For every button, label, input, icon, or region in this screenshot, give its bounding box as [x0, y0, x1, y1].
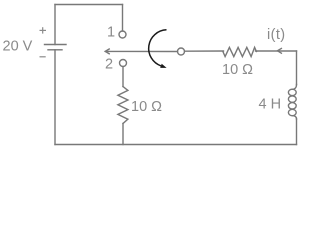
- resistor R2 10 ohm (middle branch): [118, 87, 128, 124]
- svg-text:i(t): i(t): [267, 27, 286, 43]
- resistor R1 10 ohm (top): [223, 47, 257, 56]
- switch terminal 1 contact: [119, 31, 126, 38]
- battery V1 negative plate: [48, 49, 62, 51]
- wire terminal 2 to resistor R2: [122, 67, 124, 87]
- switch pivot contact: [178, 48, 185, 55]
- wire left rail bottom (battery - to bottom rail): [54, 50, 56, 145]
- wire bottom rail: [55, 144, 297, 146]
- switch terminal 2 contact: [120, 60, 127, 67]
- svg-text:4 H: 4 H: [259, 97, 282, 113]
- wire pivot to resistor R1: [185, 50, 224, 52]
- svg-text:2: 2: [105, 56, 113, 72]
- wire left rail top (battery + to top rail): [54, 5, 56, 45]
- wire right rail lower: [296, 119, 298, 145]
- battery minus sign: [40, 56, 46, 58]
- switch throw arrowhead: [160, 64, 166, 68]
- inductor L1 4 H coil: [288, 85, 296, 120]
- svg-text:1: 1: [107, 25, 115, 41]
- wire top rail: [55, 4, 123, 6]
- switch arm blade with arrowhead: [105, 49, 177, 54]
- switch throw direction curved arrow: [149, 30, 167, 66]
- svg-text:10 Ω: 10 Ω: [222, 62, 253, 78]
- svg-text:20 V: 20 V: [3, 38, 33, 54]
- current arrow i(t) head: [277, 48, 281, 53]
- svg-text:10 Ω: 10 Ω: [131, 99, 162, 115]
- wire drop to switch terminal 1: [122, 5, 124, 32]
- wire resistor R2 to bottom rail: [122, 124, 124, 145]
- battery V1 positive plate: [45, 44, 67, 46]
- wire resistor R1 to top-right corner: [256, 50, 297, 52]
- wire right rail upper: [296, 51, 298, 85]
- battery plus sign: [40, 27, 47, 33]
